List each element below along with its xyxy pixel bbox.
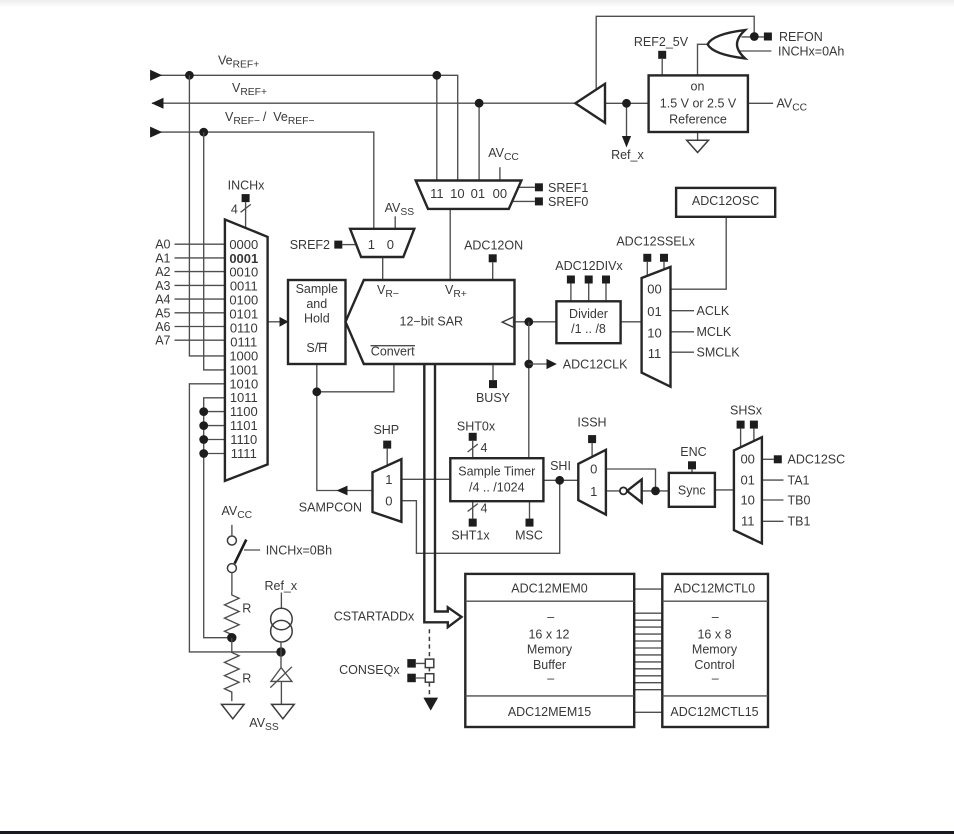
terminal squares SHSx [737, 421, 745, 429]
wire VeREF+ net: horizontal y=75.3 with corner down at x=457.7 [150, 75, 458, 180]
svg-text:ISSH: ISSH [577, 415, 606, 429]
svg-text:A3: A3 [155, 279, 170, 293]
wire ADC12OSC to SSEL input 00 [671, 217, 727, 289]
svg-text:ACLK: ACLK [697, 304, 730, 318]
svg-text:AVCC: AVCC [488, 146, 519, 163]
ground symbol under reference [687, 140, 709, 152]
svg-text:Buffer: Buffer [533, 658, 566, 672]
svg-text:ADC12SC: ADC12SC [788, 453, 846, 467]
svg-text:AVSS: AVSS [385, 201, 415, 218]
svg-text:Sample Timer: Sample Timer [458, 465, 535, 479]
wire mux output to Sample and Hold [268, 321, 281, 323]
svg-text:VeREF+: VeREF+ [218, 54, 259, 71]
arrow SAMPCON [337, 486, 348, 496]
wire AVSS stub into SREF2 mux [394, 216, 396, 229]
svg-text:–: – [547, 672, 554, 686]
node dots channels 1100-1111 [199, 407, 208, 416]
wire diode to ground [280, 681, 282, 704]
svg-text:1.5 V or 2.5 V: 1.5 V or 2.5 V [660, 96, 737, 110]
wire A0-A7 input stubs [175, 244, 225, 340]
svg-text:INCHx: INCHx [228, 179, 266, 193]
svg-text:Memory: Memory [527, 643, 573, 657]
wire channel 1011-1111 common to resistor mid node [204, 398, 232, 638]
terminal square MSC [526, 519, 534, 527]
wire ACLK input [671, 310, 695, 312]
svg-text:REF2_5V: REF2_5V [634, 35, 689, 49]
wire TB0 input [762, 499, 784, 501]
block Sample Timer /4../1024 [450, 458, 543, 501]
svg-text:R: R [242, 672, 251, 686]
wire ISSH mux input 0 bypass [606, 469, 656, 491]
svg-text:MCLK: MCLK [697, 325, 732, 339]
block Sample and Hold [288, 280, 346, 364]
wire ISSH pin [591, 443, 593, 457]
svg-text:A1: A1 [155, 251, 170, 265]
svg-text:SAMPCON: SAMPCON [299, 500, 362, 514]
svg-text:INCHx=0Ah: INCHx=0Ah [778, 44, 844, 58]
svg-text:R: R [242, 602, 251, 616]
svg-text:SHSx: SHSx [730, 403, 763, 417]
svg-text:TA1: TA1 [788, 473, 810, 487]
svg-text:and: and [306, 297, 327, 311]
terminal square SREF2 [334, 241, 342, 249]
svg-text:A6: A6 [155, 320, 170, 334]
svg-text:AVCC: AVCC [777, 96, 808, 113]
node Ref_x bottom dot [276, 647, 285, 656]
svg-text:/4 .. /1024: /4 .. /1024 [469, 480, 525, 494]
svg-text:SHT1x: SHT1x [451, 528, 490, 542]
svg-text:11: 11 [741, 514, 755, 529]
wire S/H control vertical and SAMPCON run [317, 364, 373, 491]
svg-text:Divider: Divider [569, 307, 608, 321]
arrow ADC12CLK [547, 359, 557, 369]
wire SHSx pins [741, 429, 754, 448]
svg-text:10: 10 [740, 493, 754, 508]
wire CONSEQx links [416, 663, 425, 678]
bus lines between memory and control [634, 589, 662, 712]
OR gate (reference enable) [708, 30, 745, 58]
terminal square SHP [383, 441, 391, 449]
node VeREF+ junction dots [185, 71, 194, 80]
wire AVCC switch branch [231, 525, 233, 592]
svg-text:INCHx=0Bh: INCHx=0Bh [266, 543, 332, 557]
dashed select line CONSEQx [428, 629, 430, 697]
ground AVSS left [222, 704, 245, 718]
svg-text:ADC12OSC: ADC12OSC [692, 194, 759, 208]
wire BUSY pin [492, 364, 494, 380]
wire SHT1x pin [472, 501, 474, 518]
svg-text:4: 4 [481, 502, 488, 516]
svg-text:0: 0 [590, 462, 597, 477]
wire TB1 input [762, 520, 784, 522]
svg-text:0011: 0011 [230, 279, 258, 294]
svg-text:00: 00 [647, 281, 661, 296]
arrow VREF+ output [151, 98, 163, 109]
slash SHT1x [468, 504, 478, 512]
svg-text:4: 4 [481, 441, 488, 455]
svg-text:Reference: Reference [669, 112, 727, 126]
svg-text:Convert: Convert [371, 345, 415, 359]
svg-text:0001: 0001 [229, 251, 258, 266]
terminal square ENC [688, 461, 696, 469]
terminal square REF2_5V [658, 51, 666, 59]
wire SREF1 pin [518, 186, 535, 188]
wire AVCC stub into SREF mux [499, 167, 501, 180]
svg-text:00: 00 [740, 452, 754, 467]
wire VREF-/VeREF- net: y=132.1, corner down at x=373.8 to SREF2 mux [150, 132, 374, 229]
slash on INCHx 4-bit bus [241, 204, 251, 212]
svg-text:0100: 0100 [229, 293, 258, 308]
svg-text:CONSEQx: CONSEQx [339, 663, 400, 677]
wire REF2_5V pin into Reference box [661, 59, 663, 76]
wire ADC12SSELx pins [647, 262, 664, 276]
svg-text:Sample: Sample [296, 282, 338, 296]
wire Reference output to buffer and Ref_x [605, 103, 649, 136]
terminal square REFON [764, 33, 772, 41]
wire SAMPCON mux input 0 loop from SHI [401, 480, 559, 553]
wire TA1 input [762, 479, 784, 481]
inverter (SHI polarity) [627, 479, 642, 502]
terminal square SREF0 [535, 197, 543, 205]
node VREF+ junction dot [475, 99, 484, 108]
svg-text:1000: 1000 [229, 348, 258, 363]
mux ISSH (0 1) [578, 450, 606, 515]
wire SREF0 pin [512, 200, 535, 202]
block ADC12OSC [676, 188, 775, 217]
svg-text:A0: A0 [155, 238, 170, 252]
svg-text:1001: 1001 [229, 362, 258, 377]
terminal squares CONSEQx [407, 659, 416, 668]
svg-text:0111: 0111 [230, 334, 257, 349]
svg-text:10: 10 [647, 325, 661, 340]
wire Sync to SHSx mux [715, 489, 734, 491]
mux SREF2 (1 0) [350, 229, 414, 257]
wire VeREF+ down to channel 1000 [189, 75, 225, 356]
reference block U_REF 1.5V/2.5V [649, 75, 748, 132]
terminal squares ADC12DIVx [567, 276, 575, 284]
wire ADC12ON pin [492, 262, 494, 280]
svg-text:Memory: Memory [692, 643, 738, 657]
node VREF- junction dot [199, 128, 208, 137]
arrow CONSEQx down [423, 698, 438, 711]
clock source mux ADC12SSELx [642, 267, 671, 387]
svg-text:01: 01 [471, 186, 485, 201]
wire REFON input [742, 36, 764, 38]
svg-text:SREF2: SREF2 [290, 238, 330, 252]
terminal square ADC12ON [489, 254, 497, 262]
svg-text:0110: 0110 [230, 321, 258, 336]
svg-text:1: 1 [590, 484, 597, 499]
node SAMPCON junction dot [312, 387, 321, 396]
svg-text:/1 .. /8: /1 .. /8 [571, 322, 606, 336]
wire ADC12DIVx pins [571, 283, 606, 301]
terminal square SHT1x [469, 519, 477, 527]
trigger mux SHSx [734, 437, 762, 543]
mux SAMPCON (1 0) [373, 459, 402, 522]
svg-text:ADC12SSELx: ADC12SSELx [616, 234, 695, 248]
terminal square SHT0x [469, 433, 477, 441]
terminal square INCHx [242, 194, 250, 202]
svg-text:MSC: MSC [515, 528, 543, 542]
resistor R lower [225, 638, 240, 701]
svg-text:A4: A4 [155, 293, 170, 307]
node SHI dot [555, 476, 564, 485]
wire SAR clock output to Divider [515, 321, 557, 323]
svg-text:0101: 0101 [229, 307, 258, 322]
terminal square ADC12SC [774, 455, 782, 463]
svg-text:4: 4 [231, 203, 238, 217]
wire SREF mux output to VR+ [449, 209, 451, 280]
op-amp buffer (reference follower) [575, 84, 605, 123]
wire ENC pin [691, 469, 693, 473]
terminal square SREF1 [535, 183, 543, 191]
node inverter output dot [651, 487, 660, 496]
svg-text:Control: Control [694, 658, 734, 672]
svg-text:BUSY: BUSY [476, 391, 511, 405]
svg-text:ADC12MCTL15: ADC12MCTL15 [670, 705, 758, 719]
wire INCHx=0Ah input [740, 50, 772, 52]
current source circles [271, 608, 293, 630]
arrow VREF- input [150, 127, 162, 138]
terminal square BUSY [489, 380, 497, 388]
svg-text:0: 0 [385, 493, 392, 508]
svg-text:0: 0 [387, 237, 394, 252]
wire VREF+ net: y=103.2 from arrow to buffer apex [152, 103, 575, 180]
svg-text:ENC: ENC [680, 445, 706, 459]
terminal square ISSH [588, 435, 596, 443]
svg-text:ADC12DIVx: ADC12DIVx [555, 259, 623, 273]
svg-text:SMCLK: SMCLK [697, 346, 741, 360]
svg-text:ADC12MEM0: ADC12MEM0 [511, 581, 587, 595]
svg-text:0010: 0010 [229, 265, 258, 280]
svg-text:1: 1 [385, 472, 392, 487]
block 16x12 Memory Buffer [465, 574, 634, 727]
wire SHP pin [386, 449, 388, 466]
block 16x8 Memory Control [662, 574, 768, 727]
svg-text:1111: 1111 [231, 446, 257, 461]
svg-text:VREF+: VREF+ [232, 81, 267, 98]
arrow into Sample and Hold [280, 317, 289, 327]
block Divider /1../8 [556, 301, 620, 343]
svg-text:1: 1 [368, 237, 375, 252]
wire inverter to ISSH mux input 1 [606, 490, 669, 492]
wire SHT0x pin [472, 441, 474, 458]
wire SREF2 mux output to VR- [382, 257, 384, 280]
wire ADC12CLK stub [529, 363, 547, 365]
slash SHT0x [468, 444, 478, 452]
wire MCLK input [671, 331, 695, 333]
svg-text:TB0: TB0 [788, 494, 811, 508]
wire SAMPCON mux input 1 from Sample Timer [401, 478, 450, 480]
wire channel 1010 to Ref_x node [189, 384, 281, 652]
svg-text:–: – [547, 610, 554, 624]
svg-text:Hold: Hold [304, 312, 330, 326]
wire MSC pin [529, 501, 531, 518]
ground AVSS right [272, 704, 295, 718]
resistor R upper [225, 592, 240, 638]
arrow Ref_x output [622, 136, 631, 148]
reference select mux SREF (11 10 01 00) [416, 181, 522, 209]
svg-text:SREF1: SREF1 [548, 181, 588, 195]
svg-text:16 x 12: 16 x 12 [528, 628, 569, 642]
switch contact circles [227, 536, 236, 545]
svg-text:ADC12CLK: ADC12CLK [563, 357, 628, 371]
svg-text:–: – [712, 672, 719, 686]
svg-text:TB1: TB1 [788, 515, 811, 529]
svg-text:SHT0x: SHT0x [457, 419, 496, 433]
svg-text:on: on [691, 79, 705, 93]
svg-text:SHP: SHP [373, 423, 399, 437]
SAR clock input notch [502, 317, 513, 327]
svg-text:A2: A2 [155, 265, 170, 279]
wire ADC12SC input [762, 458, 774, 460]
node REFON dot [750, 32, 759, 41]
svg-text:SHI: SHI [550, 459, 571, 473]
node SAR clock dot [524, 317, 533, 326]
block Sync [669, 473, 715, 507]
svg-text:AVCC: AVCC [222, 504, 253, 521]
svg-text:1101: 1101 [230, 418, 258, 433]
wire feedback REFON top loop to buffer [596, 16, 754, 90]
svg-text:Ref_x: Ref_x [611, 148, 644, 162]
temp diode with slash [270, 642, 292, 688]
wire ADC12CLK vertical into Sample Timer [528, 322, 530, 458]
wire Divider to SSEL mux [621, 321, 642, 323]
svg-text:01: 01 [740, 473, 754, 488]
svg-text:12−bit SAR: 12−bit SAR [400, 315, 464, 329]
svg-text:AVSS: AVSS [249, 716, 279, 733]
wire INCHx 4-bit pin [245, 202, 247, 228]
node resistor mid dot [227, 633, 236, 642]
svg-text:–: – [712, 610, 719, 624]
node Ref_x junction dot [622, 99, 631, 108]
svg-text:Sync: Sync [678, 484, 706, 498]
svg-text:REFON: REFON [779, 30, 823, 44]
svg-text:00: 00 [493, 186, 507, 201]
svg-text:11: 11 [430, 186, 444, 201]
wire SMCLK input [671, 351, 695, 353]
svg-text:ADC12MCTL0: ADC12MCTL0 [674, 581, 755, 595]
current source Ref_x stub [280, 593, 282, 609]
block 12-bit SAR [346, 280, 515, 364]
svg-text:10: 10 [450, 186, 464, 201]
wire SREF2 pin [342, 244, 357, 246]
ground stub under Reference [697, 132, 699, 140]
svg-text:1010: 1010 [229, 376, 258, 391]
arrow VeREF+ input [150, 70, 162, 81]
node ADC12CLK dot [524, 360, 533, 369]
svg-text:1100: 1100 [230, 404, 258, 419]
svg-text:1011: 1011 [230, 390, 258, 405]
svg-text:01: 01 [647, 304, 661, 319]
bus arrow CSTARTADDx into memory [424, 365, 461, 627]
svg-text:ADC12ON: ADC12ON [464, 238, 523, 252]
svg-text:VREF− / VeREF−: VREF− / VeREF− [225, 110, 314, 127]
svg-text:SREF0: SREF0 [548, 195, 588, 209]
svg-text:0000: 0000 [229, 237, 258, 252]
wire Convert control [317, 364, 394, 392]
input mux INCHx (channel selector) [225, 220, 268, 481]
svg-text:Ref_x: Ref_x [264, 579, 297, 593]
wire Sample Timer output SHI [543, 479, 578, 481]
svg-text:A5: A5 [155, 306, 170, 320]
svg-text:A7: A7 [155, 334, 170, 348]
svg-text:16 x 8: 16 x 8 [697, 628, 731, 642]
terminal squares ADC12SSELx [643, 254, 651, 262]
switch lever INCHx=0Bh [235, 540, 247, 564]
wire OR gate output to Reference on-pin [698, 44, 708, 75]
svg-text:11: 11 [648, 346, 662, 361]
wire VREF- down to channel 1001 [204, 132, 225, 370]
wire AVCC pin right of Reference [748, 102, 773, 104]
svg-text:1110: 1110 [230, 432, 257, 447]
tap squares on CONSEQx line [425, 659, 434, 668]
svg-text:ADC12MEM15: ADC12MEM15 [508, 705, 591, 719]
svg-text:CSTARTADDx: CSTARTADDx [334, 609, 415, 623]
